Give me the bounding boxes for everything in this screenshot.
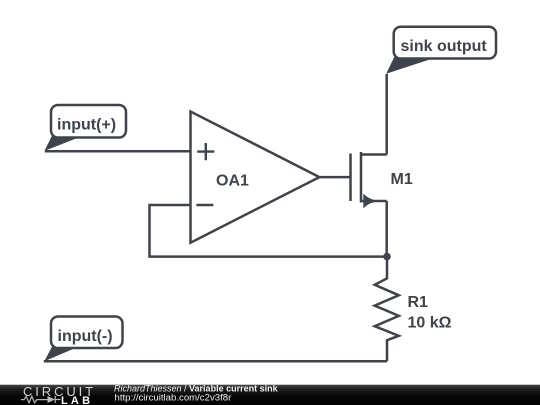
wire M1 drain to sink output flag <box>385 74 388 155</box>
svg-text:R1: R1 <box>408 294 429 311</box>
resistor R1 <box>375 257 399 362</box>
wire R1 bottom to input(-) flag <box>44 360 387 363</box>
net flag input(+) <box>45 105 127 151</box>
wire M1 source to node A <box>385 201 388 257</box>
wire input(+) flag to OA1 non-inverting input <box>45 150 191 153</box>
svg-text:LAB: LAB <box>61 395 93 405</box>
footer bar <box>0 385 540 405</box>
svg-text:input(+): input(+) <box>57 117 116 134</box>
wire OA1 output to M1 gate <box>319 176 350 179</box>
svg-text:10 kΩ: 10 kΩ <box>408 314 452 331</box>
transistor M1 (NMOS) <box>351 152 413 208</box>
net flag input(-) <box>44 317 122 362</box>
svg-text:http://circuitlab.com/c2v3f8r: http://circuitlab.com/c2v3f8r <box>115 393 233 404</box>
wire feedback node A to OA1 inverting input <box>150 205 388 257</box>
CircuitLab logo <box>21 384 96 405</box>
node A junction (M1 source / R1 / feedback) <box>383 253 391 261</box>
label R1 value 10 kOhm <box>408 294 452 331</box>
attribution text <box>114 383 279 403</box>
svg-text:sink output: sink output <box>401 38 488 55</box>
op-amp OA1 <box>191 112 320 243</box>
svg-text:input(-): input(-) <box>58 328 113 345</box>
net flag sink output <box>386 27 496 74</box>
svg-text:M1: M1 <box>391 171 413 188</box>
svg-text:OA1: OA1 <box>216 173 249 190</box>
